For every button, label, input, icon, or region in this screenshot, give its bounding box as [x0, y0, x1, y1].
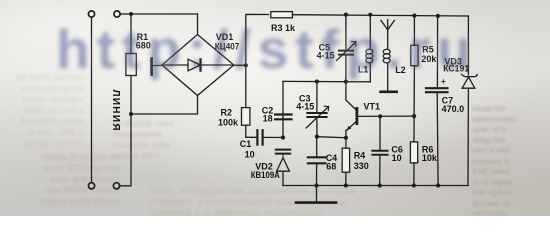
wire L2 bottom — [387, 63, 389, 91]
wire plus rail top — [246, 14, 269, 65]
node junction emitter R4 — [344, 136, 348, 140]
resistor R6 — [410, 142, 417, 163]
antenna — [381, 20, 395, 49]
faint bleed-through text right column — [472, 104, 550, 220]
svg-text:470.0: 470.0 — [442, 104, 465, 114]
wire R2 column — [245, 65, 247, 107]
faint bleed-through text bottom left — [2, 152, 120, 207]
node junction bridge bottom return — [129, 112, 133, 116]
resistor R4 — [342, 148, 349, 172]
terminal top-left — [88, 11, 94, 17]
terminal bottom-left — [88, 183, 94, 189]
trimmer capacitor C3 — [306, 106, 328, 128]
AC input tick bar — [152, 59, 162, 75]
node junction R5 top — [412, 14, 416, 18]
faint bleed-through text left band — [0, 72, 84, 149]
wire C3 to emitter node — [316, 118, 318, 137]
resistor R5 — [411, 45, 418, 65]
wire C3 column — [316, 82, 318, 112]
node junction base divider — [412, 114, 416, 118]
ground symbol — [296, 186, 336, 203]
svg-text:10k: 10k — [422, 153, 438, 163]
wire R5 to divider node — [413, 66, 415, 116]
svg-text:C1: C1 — [240, 139, 252, 149]
wire emitter run — [317, 137, 346, 138]
wire VD2 to ground rail — [282, 171, 284, 185]
node junction C4 ground — [314, 183, 318, 187]
wire R2 to C1 — [246, 125, 257, 137]
svg-text:330: 330 — [354, 161, 369, 171]
node junction C7 ground — [436, 183, 440, 187]
resistor R3 — [271, 12, 293, 18]
svg-text:18: 18 — [263, 114, 273, 124]
wire C2 column — [282, 81, 284, 137]
svg-text:R4: R4 — [354, 151, 366, 161]
wire C6 to ground — [379, 156, 381, 186]
node junction C3 C4 emitter — [315, 135, 319, 139]
node junction L1 top — [368, 13, 372, 17]
svg-text:10: 10 — [392, 153, 402, 163]
node junction R4 ground — [344, 183, 348, 187]
wire R6 column — [413, 116, 415, 142]
transistor VT1 — [346, 82, 357, 138]
node junction at R1 top — [129, 12, 133, 16]
capacitor C1 — [257, 130, 262, 144]
capacitor C4 — [308, 157, 326, 163]
wire C4 column — [316, 137, 318, 157]
capacitor C2 — [275, 115, 291, 120]
svg-text:КВ109А: КВ109А — [251, 170, 280, 180]
wire left line vertical — [91, 17, 93, 182]
wire top from terminal to R1 node — [120, 13, 197, 15]
node junction C3 top — [315, 79, 319, 83]
wire C5 to node — [345, 56, 347, 82]
node junction base C6 — [378, 114, 382, 118]
capacitor C6 — [372, 151, 387, 155]
wire C4 to ground — [316, 164, 318, 185]
wire plus rail top right — [292, 15, 468, 16]
node junction varicap node — [281, 135, 285, 139]
resistor R1 — [126, 54, 136, 76]
varicap VD2 — [276, 150, 290, 172]
svg-text:VT1: VT1 — [364, 102, 381, 112]
inductor L2 — [383, 49, 390, 63]
wire L1 column top — [369, 15, 371, 49]
svg-text:68: 68 — [326, 162, 336, 172]
resistor R2 — [242, 108, 250, 126]
svg-text:ЛИНИЯ: ЛИНИЯ — [110, 90, 121, 131]
node junction R6 ground — [412, 183, 416, 187]
terminal top-right — [114, 11, 120, 17]
wire C7 column — [436, 16, 438, 87]
wire R6 to ground — [413, 163, 415, 186]
svg-text:10: 10 — [245, 150, 255, 160]
wire R4 column — [345, 138, 347, 148]
wire C1 to varicap node — [264, 136, 283, 138]
wire C6 column — [379, 116, 381, 149]
wire R4 to ground — [345, 172, 347, 185]
wire bridge right stub — [234, 64, 246, 66]
wire VD3 to ground rail — [467, 88, 469, 185]
wire oscillator node horizontal — [283, 80, 370, 82]
faint bleed-through text bottom centre — [150, 186, 480, 219]
node junction C5 collector — [344, 80, 348, 84]
node junction bridge output — [244, 63, 248, 67]
faint bleed-through text mid left under bridge — [112, 118, 232, 162]
wire ground rail bottom — [283, 185, 468, 187]
node junction C5 top — [344, 13, 348, 17]
wire L1 bottom — [369, 63, 371, 82]
wire C7 to ground — [436, 93, 439, 185]
svg-text:4-15: 4-15 — [296, 102, 314, 112]
wire bridge top stub — [197, 14, 199, 35]
bridge rectifier VD1 diamond — [162, 35, 234, 96]
diode inside VD1 — [164, 59, 232, 71]
ground symbol L2 — [381, 91, 397, 94]
trimmer capacitor C5 — [337, 42, 356, 61]
node junction C7 top — [436, 14, 440, 18]
wire VD3 column — [467, 16, 469, 75]
terminal bottom-right — [113, 183, 119, 189]
node junction C6 ground — [378, 183, 382, 187]
inductor L1 — [366, 49, 373, 63]
watermark glow — [56, 17, 478, 81]
svg-text:R2: R2 — [221, 108, 233, 118]
wire R5 column — [413, 16, 415, 46]
wire base run — [358, 115, 414, 117]
wire C5 column — [345, 15, 347, 50]
wire R1 column down to bottom terminal — [120, 14, 131, 186]
wire bridge bottom return — [131, 96, 198, 115]
capacitor C7 electrolytic — [426, 88, 448, 92]
svg-text:100k: 100k — [218, 118, 239, 128]
zener diode VD3 — [461, 74, 477, 88]
